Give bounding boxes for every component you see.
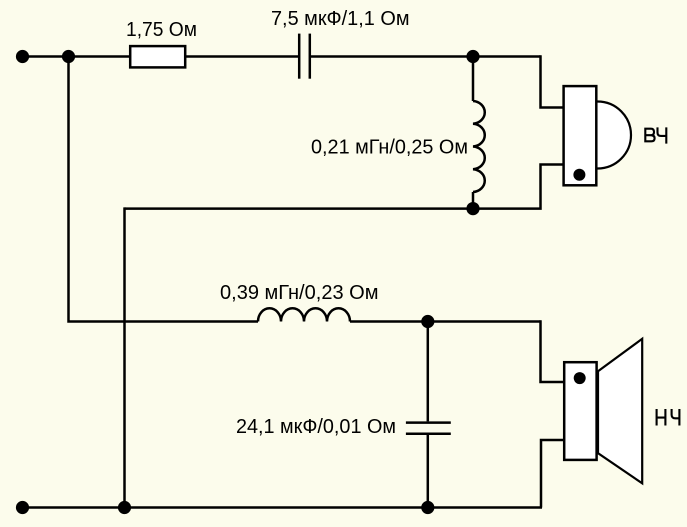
label НЧ — [657, 410, 680, 425]
wire top rail right segment — [311, 55, 541, 58]
svg-text:1,75 Ом: 1,75 Ом — [126, 19, 197, 41]
tweeter BA1 polarity dot — [573, 169, 585, 181]
inductor L2 0,39 мГн/0,23 Ом (horizontal) — [258, 308, 350, 321]
svg-text:24,1 мкФ/0,01 Ом: 24,1 мкФ/0,01 Ом — [236, 416, 396, 438]
wire top rail left segment — [21, 55, 298, 58]
woofer BA2 body — [564, 362, 596, 460]
label ВЧ — [645, 128, 666, 142]
wire drop to tweeter top terminal — [541, 55, 563, 107]
svg-text:0,21 мГн/0,25 Ом: 0,21 мГн/0,25 Ом — [311, 137, 468, 159]
tweeter BA1 dome — [564, 102, 631, 169]
node junction E bottom rail left — [118, 501, 131, 514]
wire bottom rail — [21, 506, 542, 509]
node input terminal plus — [16, 50, 29, 63]
tweeter BA1 body — [564, 86, 597, 185]
node junction D mid rail — [421, 315, 434, 328]
node input terminal minus — [16, 501, 29, 514]
node junction C tweeter branch bottom — [466, 202, 479, 215]
node junction B tweeter branch top — [466, 50, 479, 63]
capacitor C2 24,1 мкФ/0,01 Ом — [406, 423, 451, 434]
node junction A top-left — [62, 50, 75, 63]
wire capacitor C2 branch top — [427, 322, 430, 422]
wire inductor L1 branch bottom — [472, 192, 475, 209]
capacitor C1 7,5 мкФ/1,1 Ом — [299, 34, 310, 79]
svg-text:7,5 мкФ/1,1 Ом: 7,5 мкФ/1,1 Ом — [271, 8, 410, 30]
resistor R1 1,75 Ом — [130, 46, 185, 67]
inductor L1 0,21 мГн/0,25 Ом (vertical) — [473, 101, 485, 192]
wire inductor L1 branch top — [472, 57, 475, 102]
woofer BA2 polarity dot — [574, 372, 586, 384]
wire drop to woofer top terminal — [541, 320, 564, 382]
woofer BA2 cone — [598, 339, 642, 484]
wire capacitor C2 branch bottom — [427, 435, 430, 508]
svg-text:0,39 мГн/0,23 Ом: 0,39 мГн/0,23 Ом — [220, 282, 379, 304]
wire left mid vertical return — [123, 207, 126, 507]
wire left branch down from node to mid rail — [69, 57, 259, 322]
node junction F bottom rail cap — [421, 501, 434, 514]
wire tweeter bottom return — [125, 165, 563, 209]
wire mid rail after inductor — [350, 320, 541, 323]
wire woofer bottom return — [541, 440, 563, 508]
